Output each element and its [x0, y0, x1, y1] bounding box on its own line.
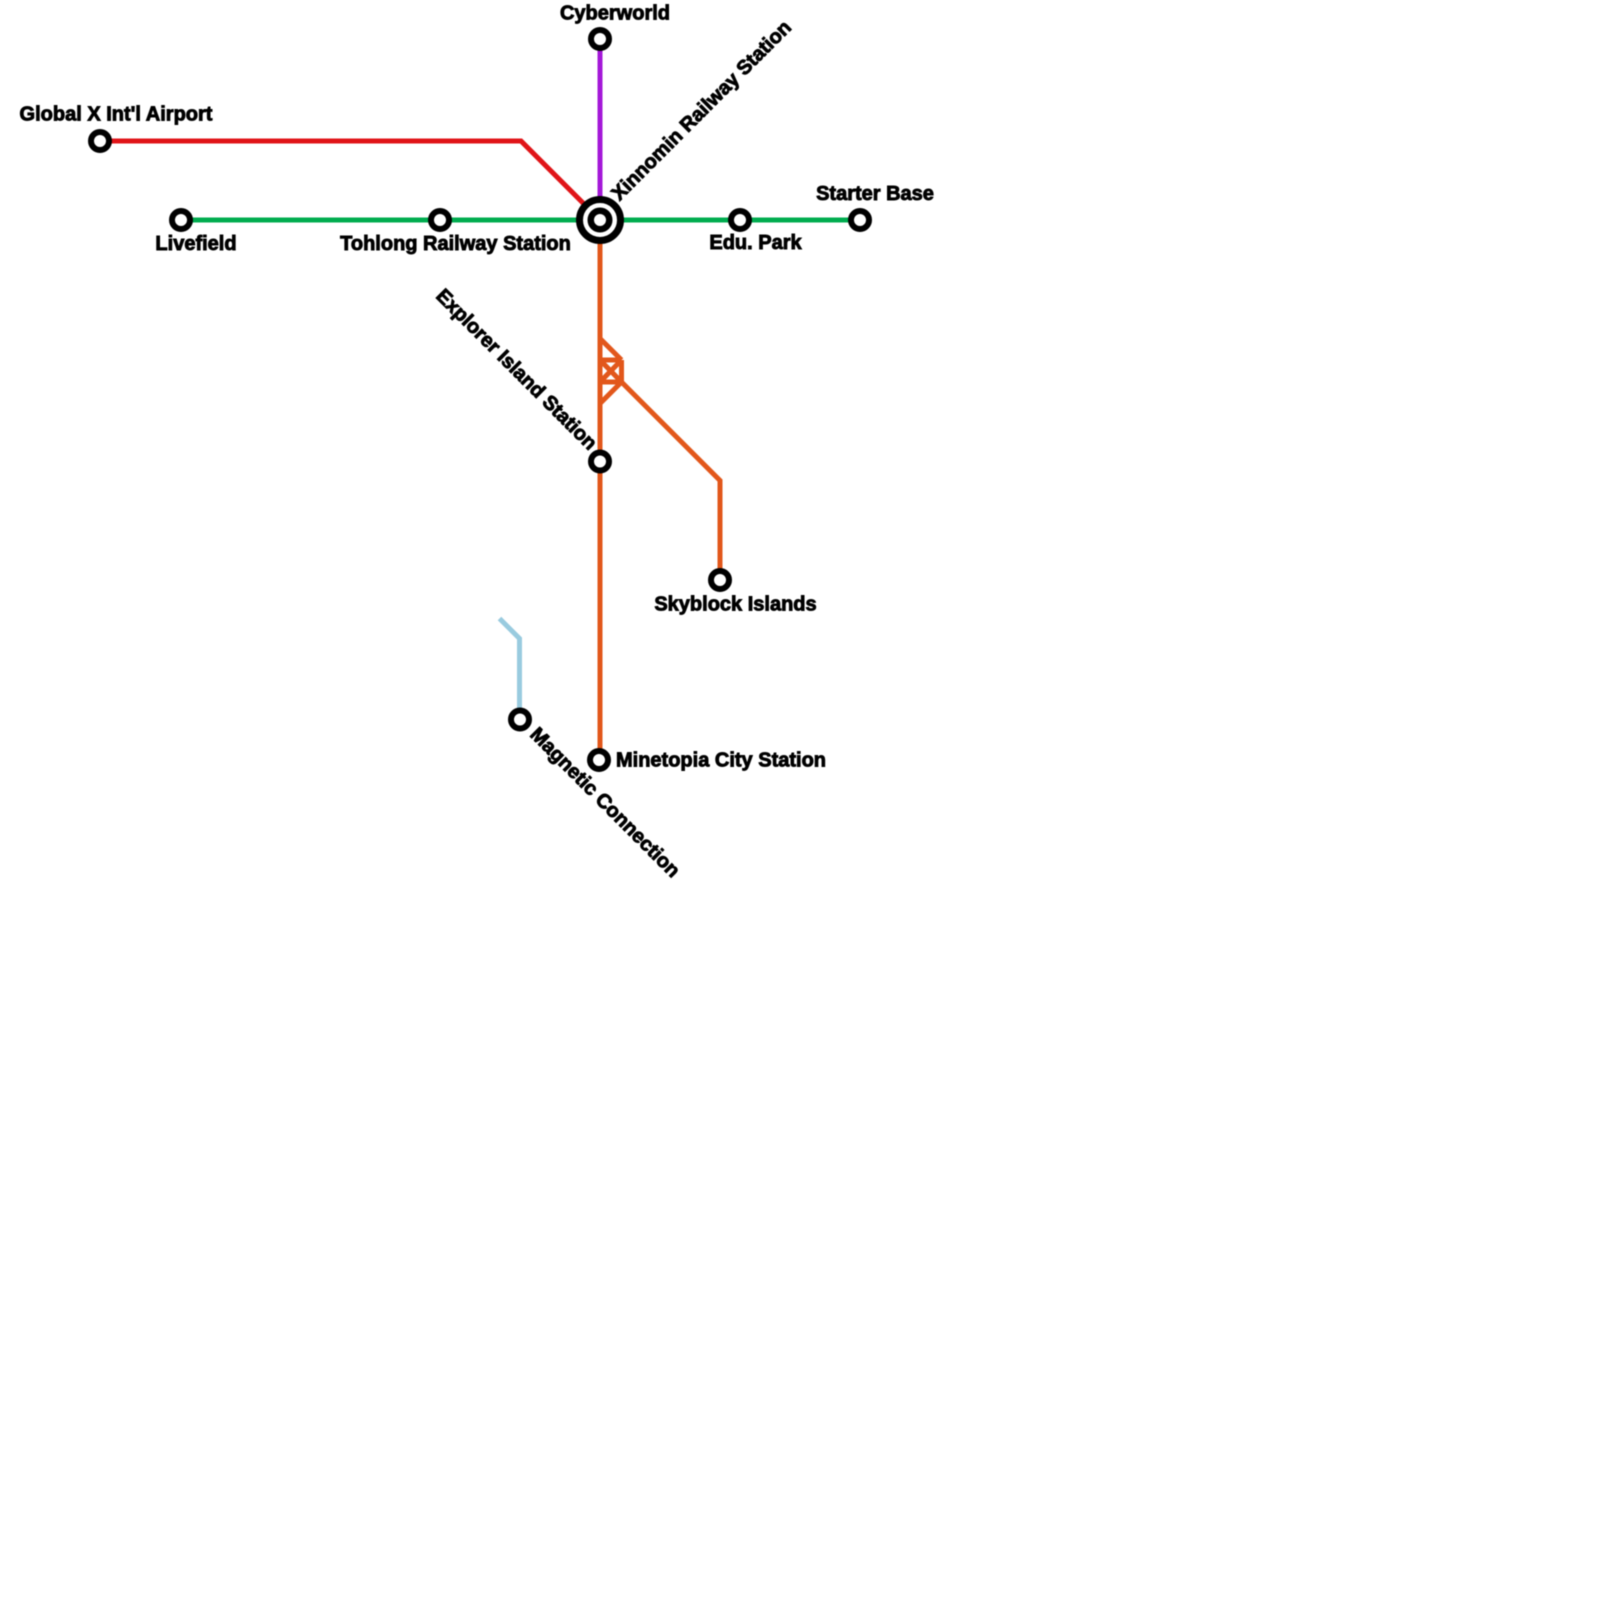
svg-text:Cyberworld: Cyberworld — [560, 3, 670, 25]
svg-text:Skyblock Islands: Skyblock Islands — [654, 594, 816, 616]
svg-text:Tohlong Railway Station: Tohlong Railway Station — [340, 233, 571, 255]
station: Skyblock Islands — [711, 571, 729, 589]
orange branch to Skyblock Islands — [622, 382, 721, 580]
svg-text:Livefield: Livefield — [155, 233, 236, 255]
station: Edu. Park — [731, 211, 749, 229]
svg-text:Global X Int'l Airport: Global X Int'l Airport — [20, 104, 213, 126]
station: Livefield — [172, 211, 190, 229]
station: Tohlong Railway Station — [431, 211, 449, 229]
red line: Global X Int'l Airport to Xinnomin — [100, 141, 600, 220]
station: Minetopia City Station — [590, 751, 608, 769]
green line: Livefield to Starter Base — [181, 218, 860, 223]
station: Explorer Island Station — [591, 453, 609, 471]
station: Magnetic Connection — [511, 711, 529, 729]
station: Cyberworld — [591, 30, 609, 48]
svg-text:Starter Base: Starter Base — [816, 183, 934, 205]
svg-text:Minetopia City Station: Minetopia City Station — [616, 750, 826, 772]
station: Starter Base — [851, 211, 869, 229]
interchange: Xinnomin Railway Station — [580, 200, 621, 241]
orange depot symbol — [600, 339, 622, 404]
purple line: Cyberworld to Xinnomin — [598, 39, 603, 220]
svg-text:Edu. Park: Edu. Park — [709, 232, 802, 254]
orange line: Xinnomin to Minetopia City Station — [598, 220, 603, 760]
light blue line: Magnetic Connection — [500, 619, 520, 721]
station: Global X Int'l Airport — [91, 132, 109, 150]
